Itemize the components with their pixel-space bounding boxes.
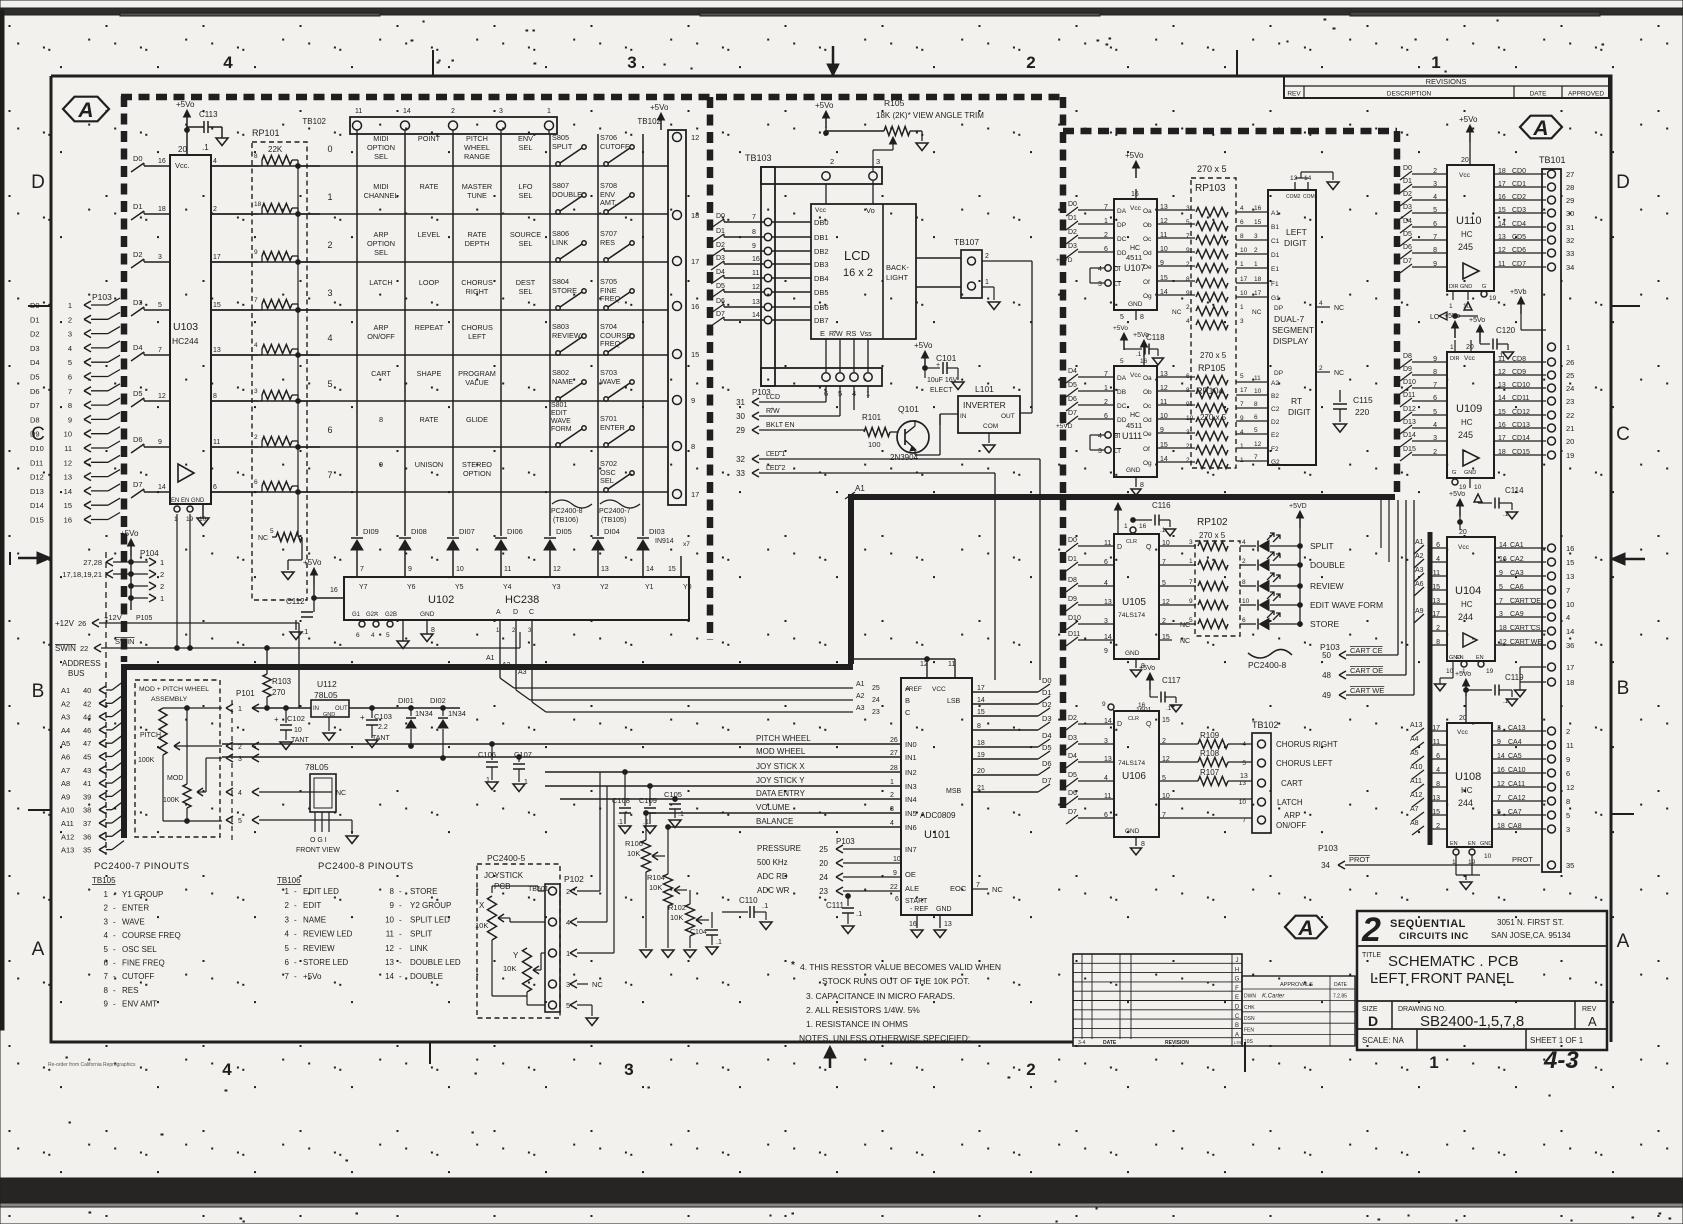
- svg-text:16: 16: [1131, 191, 1139, 198]
- svg-text:CD3: CD3: [1512, 207, 1526, 214]
- IC U102 (HC238): [344, 577, 692, 649]
- svg-text:BI: BI: [1114, 433, 1120, 440]
- svg-text:D6: D6: [1068, 790, 1077, 797]
- svg-text:18K (2K)* VIEW ANGLE TRIM: 18K (2K)* VIEW ANGLE TRIM: [876, 111, 984, 120]
- svg-text:Vcc: Vcc: [1457, 729, 1469, 736]
- svg-text:S806: S806: [552, 229, 569, 238]
- svg-text:TB107: TB107: [954, 237, 979, 247]
- svg-text:D3: D3: [1042, 714, 1052, 723]
- svg-text:32: 32: [1566, 236, 1574, 245]
- svg-text:2: 2: [1254, 247, 1258, 254]
- svg-text:ADC WR: ADC WR: [757, 886, 790, 895]
- svg-text:RS: RS: [846, 329, 856, 338]
- svg-text:CA3: CA3: [1510, 570, 1524, 577]
- svg-text:GND: GND: [936, 906, 952, 913]
- svg-text:9: 9: [1186, 247, 1190, 254]
- IC U106 (74LS174): [1066, 701, 1170, 855]
- svg-text:Vcc: Vcc: [1459, 172, 1471, 179]
- net +12V: [55, 613, 299, 708]
- svg-text:+5Vo: +5Vo: [1469, 317, 1485, 324]
- svg-text:SEL: SEL: [519, 287, 533, 296]
- svg-text:9: 9: [1497, 739, 1501, 746]
- svg-text:CD4: CD4: [1512, 221, 1526, 228]
- svg-text:3: 3: [254, 388, 258, 395]
- transistor Q101 2N3904: [890, 404, 940, 462]
- svg-text:D: D: [1616, 172, 1630, 193]
- svg-text:9: 9: [752, 243, 756, 250]
- svg-text:D0: D0: [1068, 201, 1077, 208]
- svg-text:4: 4: [890, 820, 894, 827]
- svg-text:A4: A4: [1410, 736, 1419, 743]
- svg-text:D7: D7: [716, 311, 725, 318]
- svg-text:2: 2: [1186, 304, 1190, 311]
- IC U104 (HC244): [1414, 529, 1546, 691]
- svg-text:9: 9: [1102, 701, 1106, 708]
- svg-text:36: 36: [1566, 641, 1574, 650]
- svg-text:1: 1: [1124, 523, 1128, 530]
- svg-text:A12: A12: [61, 832, 74, 841]
- wires U101 data outputs D0-D7: [972, 676, 1052, 792]
- svg-text:REVISIONS: REVISIONS: [1426, 77, 1467, 86]
- svg-text:3: 3: [627, 53, 636, 72]
- svg-text:R109: R109: [1200, 731, 1220, 740]
- svg-text:6: 6: [1566, 769, 1570, 778]
- svg-text:Vcc: Vcc: [1130, 205, 1142, 212]
- svg-text:245: 245: [1458, 242, 1473, 252]
- svg-text:+5Vo: +5Vo: [914, 341, 933, 350]
- svg-text:MOD + PITCH WHEEL: MOD + PITCH WHEEL: [139, 686, 209, 693]
- svg-text:A1: A1: [61, 686, 70, 695]
- svg-text:22: 22: [890, 884, 898, 891]
- svg-text:APPROVED: APPROVED: [1568, 91, 1604, 98]
- svg-text:NC: NC: [592, 980, 603, 989]
- svg-text:Vo: Vo: [866, 206, 875, 215]
- svg-text:IN6: IN6: [905, 823, 917, 832]
- svg-text:14: 14: [977, 697, 985, 704]
- svg-text:4: 4: [222, 1060, 232, 1079]
- svg-text:TB103: TB103: [745, 153, 772, 163]
- svg-text:P103: P103: [1318, 843, 1338, 853]
- svg-text:LOOP: LOOP: [419, 278, 439, 287]
- svg-text:NC: NC: [336, 790, 346, 797]
- svg-text:D1: D1: [1068, 215, 1077, 222]
- svg-text:15: 15: [213, 302, 221, 309]
- svg-text:-: -: [113, 917, 116, 926]
- svg-text:D7: D7: [1068, 410, 1077, 417]
- svg-text:8: 8: [1140, 482, 1144, 489]
- svg-text:UNISON: UNISON: [415, 460, 443, 469]
- svg-text:CART: CART: [371, 369, 391, 378]
- svg-text:3: 3: [1186, 205, 1190, 212]
- svg-text:HC: HC: [1461, 600, 1473, 609]
- connector P103 ADC control: [757, 837, 901, 898]
- svg-text:D13: D13: [30, 487, 44, 496]
- svg-text:9: 9: [254, 249, 258, 256]
- svg-text:U111: U111: [1122, 431, 1142, 441]
- svg-text:CA8: CA8: [1508, 823, 1522, 830]
- pinout list PC2400-8: [277, 861, 461, 981]
- svg-text:DI09: DI09: [363, 527, 379, 536]
- svg-text:16: 16: [691, 302, 699, 311]
- wires address taps: [1414, 547, 1447, 829]
- svg-text:SEL: SEL: [374, 248, 388, 257]
- scan artifact: left edge line: [0, 10, 4, 1030]
- svg-text:DC: DC: [1117, 403, 1127, 410]
- svg-text:18: 18: [1498, 168, 1506, 175]
- svg-text:REVISION: REVISION: [1165, 1040, 1189, 1046]
- svg-text:15: 15: [1254, 219, 1262, 226]
- svg-text:EN: EN: [1450, 841, 1458, 847]
- svg-text:2: 2: [104, 904, 109, 913]
- svg-text:HC: HC: [1130, 245, 1140, 252]
- svg-text:14: 14: [1566, 627, 1574, 636]
- svg-text:DB4: DB4: [814, 274, 829, 283]
- svg-text:A5: A5: [61, 739, 70, 748]
- svg-text:D3: D3: [30, 344, 40, 353]
- svg-text:JOY STICK X: JOY STICK X: [756, 762, 805, 771]
- svg-text:4: 4: [1319, 300, 1323, 307]
- connector TB102 (right strip): [637, 103, 699, 505]
- svg-text:11: 11: [1566, 741, 1574, 750]
- svg-text:2: 2: [985, 253, 989, 260]
- svg-text:22: 22: [80, 644, 88, 653]
- svg-text:17: 17: [1240, 387, 1248, 394]
- svg-text:3. CAPACITANCE IN MICRO FARADS: 3. CAPACITANCE IN MICRO FARADS.: [806, 991, 955, 1001]
- svg-text:9: 9: [1499, 570, 1503, 577]
- svg-text:5: 5: [1242, 760, 1246, 767]
- svg-text:48: 48: [1322, 671, 1331, 680]
- svg-text:ADC0809: ADC0809: [920, 811, 956, 820]
- svg-text:+12V: +12V: [55, 619, 75, 628]
- svg-text:DA: DA: [1117, 375, 1127, 382]
- svg-text:14: 14: [752, 312, 760, 319]
- svg-text:A8: A8: [61, 779, 70, 788]
- svg-text:3: 3: [1098, 281, 1102, 288]
- svg-text:ARP: ARP: [373, 230, 388, 239]
- svg-text:6: 6: [895, 896, 899, 903]
- svg-text:Vcc: Vcc: [815, 207, 827, 214]
- svg-text:IN914: IN914: [655, 538, 674, 545]
- svg-text:D10: D10: [1068, 615, 1081, 622]
- svg-text:20: 20: [1461, 157, 1469, 164]
- svg-text:BALANCE: BALANCE: [756, 817, 793, 826]
- svg-text:.1: .1: [1503, 511, 1509, 518]
- svg-text:K.Carter: K.Carter: [1262, 993, 1285, 999]
- svg-text:12: 12: [691, 133, 699, 142]
- svg-text:270 x 5: 270 x 5: [1197, 164, 1227, 174]
- svg-text:G: G: [1482, 284, 1486, 290]
- svg-text:SWIN: SWIN: [115, 637, 135, 646]
- svg-text:D6: D6: [1042, 759, 1052, 768]
- svg-text:78L05: 78L05: [305, 762, 329, 772]
- svg-text:7: 7: [158, 347, 162, 354]
- svg-text:9: 9: [691, 396, 695, 405]
- svg-text:9: 9: [893, 870, 897, 877]
- svg-text:NAME: NAME: [552, 377, 573, 386]
- svg-text:270 x 5: 270 x 5: [1200, 351, 1227, 360]
- svg-text:6: 6: [327, 425, 332, 435]
- svg-text:S703: S703: [600, 368, 617, 377]
- svg-text:D1: D1: [1042, 688, 1052, 697]
- svg-text:A11: A11: [1410, 778, 1422, 785]
- svg-text:D11: D11: [30, 458, 43, 467]
- svg-text:CUTOFF: CUTOFF: [122, 972, 154, 981]
- svg-text:CD1: CD1: [1512, 181, 1526, 188]
- svg-text:D6: D6: [133, 435, 143, 444]
- svg-text:D4: D4: [1068, 753, 1077, 760]
- svg-text:D2: D2: [30, 330, 40, 339]
- svg-text:-: -: [113, 945, 116, 954]
- connector P103 LCD control signals: [736, 386, 1040, 680]
- svg-text:+5Vo: +5Vo: [1113, 325, 1128, 332]
- svg-text:CHORUS RIGHT: CHORUS RIGHT: [1276, 740, 1338, 749]
- svg-text:TB102: TB102: [302, 117, 326, 126]
- svg-text:24: 24: [1566, 384, 1574, 393]
- svg-text:9: 9: [104, 1000, 109, 1009]
- svg-text:RP102: RP102: [1197, 517, 1228, 528]
- svg-text:D2: D2: [1068, 715, 1077, 722]
- svg-text:A: A: [496, 609, 501, 616]
- svg-text:-: -: [399, 887, 402, 896]
- IC U101 ADC0809: [851, 657, 1003, 938]
- svg-text:20: 20: [819, 859, 828, 868]
- svg-text:EN: EN: [1456, 655, 1464, 661]
- svg-text:35: 35: [1566, 861, 1574, 870]
- svg-text:C114: C114: [1505, 486, 1524, 495]
- svg-text:D9: D9: [1403, 366, 1412, 373]
- svg-text:+5Vo: +5Vo: [1139, 665, 1155, 672]
- svg-text:GND: GND: [420, 611, 435, 618]
- svg-text:DI06: DI06: [507, 527, 523, 536]
- svg-text:S701: S701: [600, 414, 617, 423]
- svg-text:1N34: 1N34: [415, 709, 433, 718]
- svg-text:A2: A2: [502, 662, 511, 669]
- svg-text:FREQ: FREQ: [600, 294, 621, 303]
- svg-text:D1: D1: [1068, 556, 1077, 563]
- svg-text:x7: x7: [683, 541, 690, 548]
- svg-text:U109: U109: [1456, 403, 1482, 415]
- svg-text:13: 13: [385, 958, 394, 967]
- svg-text:16: 16: [1566, 544, 1574, 553]
- svg-text:FREQ: FREQ: [600, 339, 621, 348]
- svg-text:.1: .1: [617, 819, 623, 826]
- svg-text:12: 12: [1499, 639, 1507, 646]
- potentiometers R106 R104 R102 10K: [625, 811, 709, 958]
- svg-text:D6: D6: [1068, 396, 1077, 403]
- svg-text:SPLIT: SPLIT: [1310, 541, 1334, 551]
- svg-text:14: 14: [403, 108, 411, 115]
- svg-text:16: 16: [1139, 523, 1147, 530]
- svg-text:SPLIT: SPLIT: [552, 142, 573, 151]
- svg-text:18: 18: [158, 206, 166, 213]
- svg-text:.1: .1: [762, 901, 768, 910]
- svg-text:R103: R103: [272, 677, 292, 686]
- svg-text:10S: 10S: [1244, 1039, 1254, 1045]
- svg-text:3: 3: [876, 157, 880, 166]
- svg-text:A7: A7: [1410, 806, 1419, 813]
- svg-text:Q101: Q101: [898, 404, 919, 414]
- svg-text:38: 38: [83, 806, 91, 815]
- svg-text:Y0: Y0: [683, 584, 692, 591]
- svg-text:R102: R102: [668, 903, 686, 912]
- svg-text:13: 13: [1566, 572, 1574, 581]
- svg-text:CD8: CD8: [1512, 356, 1526, 363]
- svg-text:CA9: CA9: [1510, 611, 1524, 618]
- svg-text:Q: Q: [1146, 544, 1152, 551]
- svg-text:PITCH: PITCH: [140, 732, 161, 739]
- svg-text:16: 16: [752, 256, 760, 263]
- svg-text:6: 6: [1242, 617, 1246, 624]
- svg-text:3: 3: [499, 108, 503, 115]
- svg-text:C1: C1: [1271, 238, 1280, 245]
- svg-text:JOYSTICK: JOYSTICK: [484, 871, 524, 880]
- svg-text:24: 24: [872, 697, 880, 704]
- svg-text:H: H: [1235, 967, 1239, 973]
- wire bus taps D0-D7 into U103: [131, 154, 170, 498]
- svg-text:17: 17: [1498, 181, 1506, 188]
- scan artifact: top edge band: [0, 8, 1683, 16]
- svg-text:5: 5: [238, 818, 242, 825]
- wires A1 A2 A3 from U102 to U101: [486, 640, 853, 712]
- 78L05 package front view: [296, 762, 340, 854]
- svg-text:6: 6: [1240, 219, 1244, 226]
- svg-text:16: 16: [1138, 702, 1146, 709]
- svg-text:7: 7: [1242, 817, 1246, 824]
- svg-text:COM1: COM1: [1303, 194, 1318, 200]
- svg-text:A3: A3: [61, 713, 70, 722]
- svg-text:CART WE: CART WE: [1350, 686, 1384, 695]
- switches S701-S708 column: [600, 133, 634, 492]
- svg-text:3: 3: [1240, 318, 1244, 325]
- svg-text:-: -: [294, 915, 297, 924]
- svg-text:CD7: CD7: [1512, 261, 1526, 268]
- svg-text:A9: A9: [1415, 608, 1424, 615]
- svg-text:CA7: CA7: [1508, 809, 1522, 816]
- svg-text:6: 6: [68, 373, 72, 382]
- svg-text:NC: NC: [1172, 309, 1182, 316]
- connector P104/P105: [62, 529, 164, 622]
- svg-text:2: 2: [238, 744, 242, 751]
- svg-text:Od: Od: [1143, 417, 1152, 424]
- svg-text:CD5: CD5: [1512, 234, 1526, 241]
- svg-text:D6: D6: [716, 298, 725, 305]
- svg-text:LSB: LSB: [947, 698, 961, 705]
- svg-text:D2: D2: [1042, 700, 1052, 709]
- svg-text:C116: C116: [1152, 501, 1171, 510]
- heavy bus line center block: [848, 497, 1395, 664]
- svg-text:LT: LT: [1114, 448, 1121, 455]
- svg-text:DP: DP: [1274, 370, 1283, 377]
- svg-text:23: 23: [819, 887, 828, 896]
- svg-text:DP: DP: [1117, 222, 1126, 229]
- svg-text:-: -: [113, 986, 116, 995]
- svg-text:SCHEMATIC . PCB: SCHEMATIC . PCB: [1388, 953, 1519, 970]
- svg-text:Y: Y: [513, 951, 519, 960]
- svg-text:EOC: EOC: [950, 884, 967, 893]
- svg-text:8: 8: [68, 401, 72, 410]
- svg-text:B: B: [1235, 1023, 1239, 1029]
- svg-text:.1: .1: [1160, 527, 1166, 534]
- svg-text:STOCK RUNS OUT OF THE 10K POT.: STOCK RUNS OUT OF THE 10K POT.: [822, 976, 970, 986]
- svg-text:12: 12: [64, 458, 72, 467]
- svg-text:17,18,19,21: 17,18,19,21: [62, 570, 102, 579]
- svg-text:270 x 5: 270 x 5: [1199, 531, 1226, 540]
- svg-text:-: -: [399, 915, 402, 924]
- svg-text:+5Vo: +5Vo: [1459, 115, 1478, 124]
- LCD 16x2 module: [772, 181, 916, 372]
- svg-text:S706: S706: [600, 133, 617, 142]
- svg-text:3: 3: [1189, 539, 1193, 546]
- company hexagon logo top-left: [63, 97, 109, 122]
- svg-text:P101: P101: [236, 689, 255, 698]
- svg-text:C119: C119: [1505, 673, 1524, 682]
- resistor packs RP103 RP105 RP104 270x5: [1172, 164, 1262, 469]
- svg-text:WAVE: WAVE: [600, 377, 621, 386]
- svg-text:244: 244: [1458, 798, 1473, 808]
- svg-text:15: 15: [1566, 558, 1574, 567]
- svg-text:Y1: Y1: [645, 584, 654, 591]
- svg-text:D4: D4: [1042, 731, 1052, 740]
- svg-text:22: 22: [1566, 411, 1574, 420]
- svg-text:10: 10: [1239, 799, 1247, 806]
- svg-text:7: 7: [752, 214, 756, 221]
- svg-text:14: 14: [1498, 221, 1506, 228]
- svg-text:GND: GND: [1125, 828, 1140, 835]
- svg-text:10: 10: [1484, 853, 1492, 860]
- svg-text:25: 25: [1566, 371, 1574, 380]
- svg-text:18: 18: [1497, 823, 1505, 830]
- svg-text:1: 1: [890, 779, 894, 786]
- svg-text:CA1: CA1: [1510, 542, 1524, 549]
- svg-text:34: 34: [1321, 861, 1330, 870]
- IC U108 (HC244): [1410, 715, 1546, 890]
- svg-text:APPROVALS: APPROVALS: [1280, 982, 1313, 988]
- svg-text:TB106: TB106: [277, 876, 301, 885]
- svg-text:37: 37: [83, 819, 91, 828]
- svg-text:1: 1: [985, 279, 989, 286]
- svg-text:D7: D7: [1068, 809, 1077, 816]
- svg-text:D4: D4: [30, 358, 40, 367]
- svg-text:A6: A6: [1415, 581, 1424, 588]
- svg-text:F2: F2: [1271, 446, 1279, 453]
- svg-text:D4: D4: [1403, 218, 1412, 225]
- svg-text:17: 17: [213, 254, 221, 261]
- capacitor C113: [176, 100, 228, 155]
- svg-text:NAME: NAME: [303, 915, 326, 924]
- svg-text:BACK-: BACK-: [886, 263, 909, 272]
- svg-text:47: 47: [83, 739, 91, 748]
- hand-written page number 4-3: [1543, 1047, 1579, 1074]
- svg-text:B: B: [905, 696, 910, 705]
- svg-text:CART: CART: [1281, 779, 1303, 788]
- svg-text:-: -: [399, 930, 402, 939]
- svg-text:D: D: [1117, 544, 1122, 551]
- svg-text:REVIEW LED: REVIEW LED: [303, 930, 353, 939]
- svg-text:PC2400-8: PC2400-8: [551, 508, 583, 515]
- svg-text:5: 5: [1497, 809, 1501, 816]
- svg-text:+5Vo: +5Vo: [1107, 495, 1123, 502]
- svg-text:3: 3: [68, 330, 72, 339]
- svg-text:C118: C118: [1146, 333, 1165, 342]
- svg-text:CD11: CD11: [1512, 395, 1529, 402]
- svg-text:G2A: G2A: [366, 612, 378, 618]
- svg-text:D: D: [31, 172, 45, 193]
- svg-text:C102: C102: [287, 714, 305, 723]
- svg-text:4: 4: [327, 333, 332, 343]
- svg-text:DI01: DI01: [398, 696, 414, 705]
- svg-text:-: -: [399, 958, 402, 967]
- svg-text:20: 20: [1459, 715, 1467, 722]
